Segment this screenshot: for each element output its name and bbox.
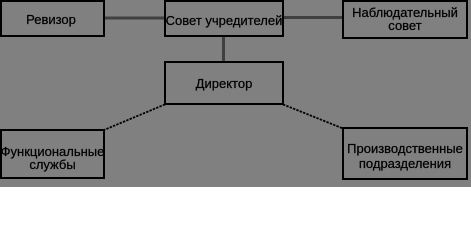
node Наблюдательный совет bbox=[342, 0, 468, 39]
wire sovet-direktor bbox=[222, 36, 225, 62]
node Совет учредителей bbox=[164, 0, 284, 37]
wire connectors bbox=[0, 0, 471, 187]
node Производственные подразделения bbox=[342, 127, 468, 180]
node Директор bbox=[164, 61, 284, 105]
wire direktor-funk diagonal bbox=[104, 104, 165, 130]
wire revizor-sovet bbox=[103, 17, 166, 20]
node Ревизор bbox=[0, 0, 105, 37]
wire sovet-nabl bbox=[282, 16, 344, 19]
node Функциональные службы bbox=[0, 129, 105, 179]
wire direktor-proizv diagonal bbox=[283, 104, 343, 128]
